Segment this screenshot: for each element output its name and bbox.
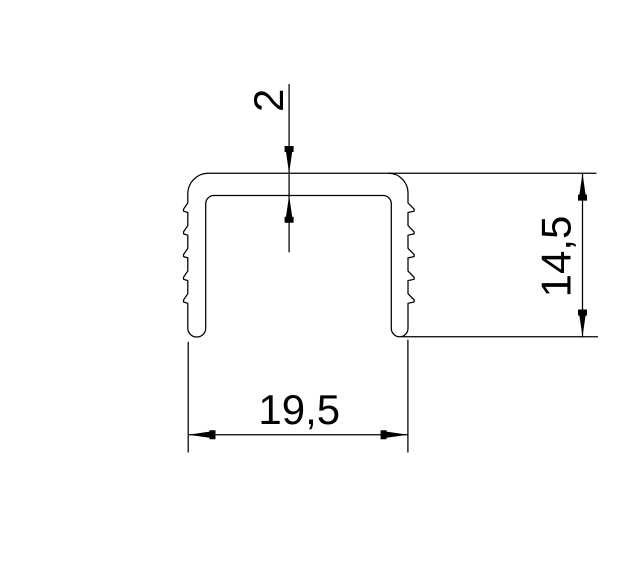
dimension 2: arrow pointing up to inner wall	[285, 196, 294, 223]
U-channel profile outline	[184, 173, 415, 337]
dimension 14,5: vertical dimension line	[582, 173, 584, 336]
dimension 2: arrow pointing down to outer wall	[285, 146, 294, 173]
dimension 19,5: arrow pointing right	[381, 430, 408, 439]
dimension 19,5: right extension line	[407, 340, 409, 453]
svg-text:14,5: 14,5	[533, 216, 580, 298]
dimension 2: vertical dimension line	[288, 84, 290, 252]
dimension 14,5: arrow pointing down	[578, 310, 587, 337]
svg-text:2: 2	[245, 89, 292, 112]
dimension 19,5: left extension line	[187, 342, 189, 453]
dimension 14,5: bottom extension line	[402, 336, 598, 338]
dimension 14,5: arrow pointing up	[578, 173, 587, 200]
dimension 19,5: horizontal dimension line	[188, 434, 408, 436]
dimension 14,5: top extension line	[388, 172, 597, 174]
dimension 19,5: arrow pointing left	[188, 430, 215, 439]
svg-text:19,5: 19,5	[258, 386, 340, 433]
